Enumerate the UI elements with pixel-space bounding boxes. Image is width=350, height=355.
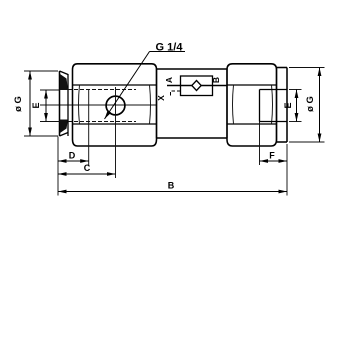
svg-text:X: X: [156, 95, 166, 101]
svg-text:D: D: [69, 151, 76, 161]
svg-text:F: F: [269, 151, 275, 161]
svg-text:ø G: ø G: [305, 96, 316, 112]
svg-text:E: E: [283, 102, 293, 108]
svg-text:ø G: ø G: [13, 96, 24, 112]
svg-text:A: A: [164, 77, 174, 83]
svg-text:B: B: [211, 77, 221, 83]
svg-text:B: B: [168, 181, 175, 191]
svg-text:E: E: [31, 102, 41, 108]
svg-text:C: C: [84, 163, 91, 173]
svg-text:G 1/4: G 1/4: [156, 42, 184, 54]
